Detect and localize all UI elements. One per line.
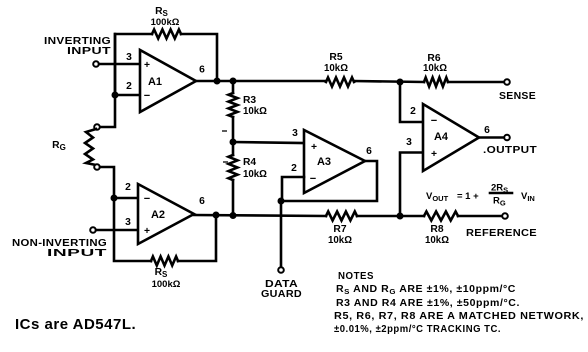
wire R3R4 midpoint to A3 pin3 <box>233 142 304 143</box>
wire A4 output <box>479 136 504 139</box>
node bottom rail R3 chain <box>230 212 237 219</box>
svg-text:= 1 +: = 1 + <box>457 191 479 202</box>
svg-text:R5, R6, R7, R8 ARE A MATCHED N: R5, R6, R7, R8 ARE A MATCHED NETWORK, <box>334 311 584 322</box>
svg-text:2: 2 <box>126 81 132 92</box>
svg-text:10kΩ: 10kΩ <box>425 235 449 246</box>
wire data guard <box>280 201 283 267</box>
svg-text:3: 3 <box>292 128 298 139</box>
wire A2 feedback loop <box>114 198 216 261</box>
svg-text:SENSE: SENSE <box>499 91 536 102</box>
svg-text:6: 6 <box>199 196 205 207</box>
terminal OUTPUT <box>483 135 537 156</box>
svg-text:GUARD: GUARD <box>261 289 302 300</box>
svg-text:2: 2 <box>125 182 131 193</box>
svg-text:.OUTPUT: .OUTPUT <box>483 145 537 156</box>
terminal REFERENCE <box>466 213 537 239</box>
label Vout formula <box>426 183 535 208</box>
svg-text:+: + <box>144 60 150 71</box>
svg-text:3: 3 <box>406 137 412 148</box>
resistor RG <box>52 129 96 165</box>
svg-text:10kΩ: 10kΩ <box>243 106 267 117</box>
wire inverting input to A1 pin3 <box>99 63 140 66</box>
wire A1 feedback loop <box>115 34 217 95</box>
svg-text:3: 3 <box>125 217 131 228</box>
terminal DATA GUARD <box>261 267 302 300</box>
wire A3 feedback loop <box>281 161 377 201</box>
wire A2 pin2 <box>114 197 138 200</box>
resistor RS top <box>151 6 181 39</box>
svg-text:2: 2 <box>291 163 297 174</box>
node A3 guard junction <box>278 198 285 205</box>
wire RG top connect <box>100 34 115 127</box>
node A1 pin2 junction <box>112 92 119 99</box>
wire RG bottom to A2 pin2 <box>100 167 114 198</box>
resistor R5 <box>324 52 354 87</box>
svg-text:+: + <box>144 226 150 237</box>
svg-text:+: + <box>431 149 437 160</box>
terminal SENSE <box>499 79 536 102</box>
svg-text:R5: R5 <box>329 52 342 63</box>
svg-text:R7: R7 <box>333 224 346 235</box>
node A2 output feedback <box>213 212 220 219</box>
node A2 pin2 junction <box>111 195 118 202</box>
svg-text:A4: A4 <box>434 131 449 143</box>
svg-text:10kΩ: 10kΩ <box>328 235 352 246</box>
terminal RG top <box>94 124 100 130</box>
svg-text:100kΩ: 100kΩ <box>151 17 180 28</box>
svg-text:ICs are AD547L.: ICs are AD547L. <box>15 316 136 333</box>
svg-text:±0.01%, ±2ppm/°C TRACKING TC.: ±0.01%, ±2ppm/°C TRACKING TC. <box>334 324 501 335</box>
terminal non-inverting input <box>12 227 108 259</box>
svg-text:100kΩ: 100kΩ <box>152 279 181 290</box>
svg-text:10kΩ: 10kΩ <box>324 63 348 74</box>
wire A3 pin2 <box>282 177 304 201</box>
stray mark left of R4 <box>223 161 228 163</box>
svg-text:REFERENCE: REFERENCE <box>466 228 537 239</box>
resistor R6 <box>423 53 448 87</box>
svg-text:INPUT: INPUT <box>47 247 108 259</box>
node top rail R3 <box>230 78 237 85</box>
svg-text:−: − <box>310 173 316 185</box>
svg-text:6: 6 <box>484 125 490 136</box>
svg-text:−: − <box>431 115 437 127</box>
wire non-inverting input to A2 pin3 <box>96 229 138 232</box>
svg-text:6: 6 <box>199 65 205 76</box>
svg-text:A1: A1 <box>148 76 162 88</box>
op-amp A4 <box>406 104 490 171</box>
node A1 output feedback <box>214 78 221 85</box>
resistor R4 <box>229 155 268 180</box>
wire A1 pin2 <box>115 94 140 97</box>
terminal inverting input <box>44 35 111 67</box>
op-amp A3 <box>291 128 372 193</box>
svg-text:R4: R4 <box>243 157 256 168</box>
svg-text:R3 AND R4 ARE ±1%, ±50ppm/°C.: R3 AND R4 ARE ±1%, ±50ppm/°C. <box>336 298 520 309</box>
svg-text:−: − <box>144 90 150 102</box>
wire R3 R4 chain <box>232 81 235 215</box>
svg-text:R3: R3 <box>243 95 256 106</box>
svg-text:2: 2 <box>410 106 416 117</box>
resistor R3 <box>229 93 268 117</box>
op-amp A1 <box>126 50 205 112</box>
op-amp A2 <box>125 182 205 244</box>
svg-text:6: 6 <box>366 146 372 157</box>
wire A4 pin3 <box>400 153 423 217</box>
wire A4 pin2 <box>400 82 423 122</box>
label NOTES <box>334 271 584 335</box>
stray mark left of R3 <box>222 130 227 132</box>
svg-text:R8: R8 <box>430 224 443 235</box>
svg-text:3: 3 <box>126 52 132 63</box>
svg-text:10kΩ: 10kΩ <box>423 63 447 74</box>
svg-text:+: + <box>311 142 317 153</box>
svg-text:−: − <box>144 193 150 205</box>
terminal RG bottom <box>94 164 100 170</box>
resistor RS bottom <box>151 257 181 291</box>
node bottom rail A4 pin3 <box>397 213 404 220</box>
svg-text:A3: A3 <box>317 156 331 168</box>
svg-text:RS AND RG ARE ±1%, ±10ppm/°C: RS AND RG ARE ±1%, ±10ppm/°C <box>336 284 516 296</box>
node R3 R4 midpoint <box>230 139 237 146</box>
svg-text:NOTES: NOTES <box>338 271 374 282</box>
wire bottom rail A2 output to REFERENCE <box>194 215 502 216</box>
svg-text:10kΩ: 10kΩ <box>243 169 267 180</box>
wire top rail A1 output to SENSE <box>195 81 504 82</box>
resistor R8 <box>424 212 458 247</box>
resistor R7 <box>326 212 357 247</box>
svg-text:INPUT: INPUT <box>67 45 111 57</box>
node top rail A4 pin2 <box>397 79 404 86</box>
label ICs are AD547L <box>15 316 136 333</box>
svg-text:A2: A2 <box>151 209 165 221</box>
